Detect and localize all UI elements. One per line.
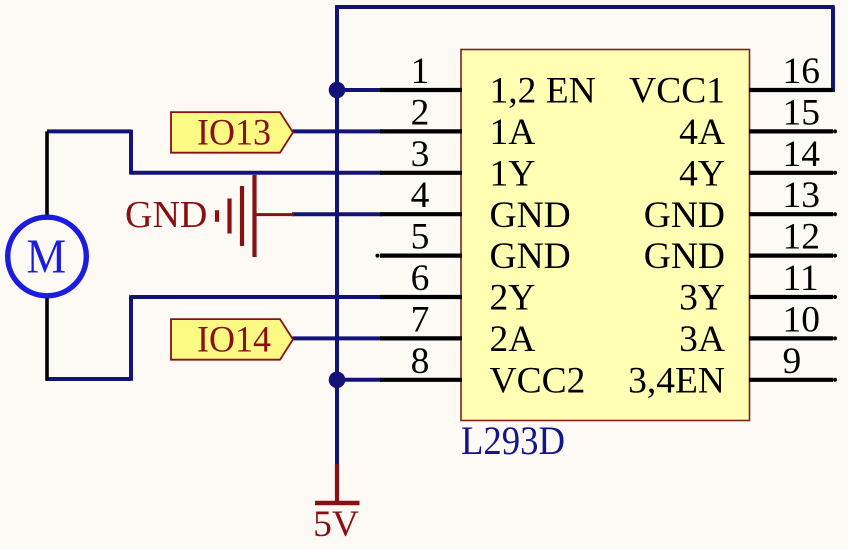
svg-text:3: 3 <box>411 134 430 175</box>
pin 7 line <box>380 336 462 340</box>
svg-text:4Y: 4Y <box>679 153 725 194</box>
pin 16 line <box>749 88 833 92</box>
svg-text:GND: GND <box>644 236 725 277</box>
pin 6 line <box>380 295 462 299</box>
wire IO13 to pin 2 (1A) <box>293 129 383 133</box>
svg-text:13: 13 <box>783 175 821 216</box>
wire IO14 to pin 7 (2A) <box>293 336 383 340</box>
pin 11 line <box>749 295 833 299</box>
motor lead bottom (black) <box>45 298 49 381</box>
svg-text:M: M <box>27 229 67 284</box>
pin 14 line <box>749 171 833 175</box>
svg-text:1A: 1A <box>490 112 536 153</box>
svg-text:10: 10 <box>783 299 821 340</box>
junction dot at pin 8 / 5V net <box>329 372 346 389</box>
pin 2 line <box>380 129 462 133</box>
ground symbol bar at x=229.5 <box>227 199 231 234</box>
wire 5V net: right vertical to pin 16 <box>831 7 835 92</box>
pin 13 end dot <box>833 212 837 216</box>
pin 14 end dot <box>833 171 837 175</box>
wire GND symbol to pin 4 <box>292 212 382 216</box>
pin 8 line <box>380 378 462 382</box>
svg-text:4: 4 <box>411 175 430 216</box>
net label flag IO13 <box>171 112 293 153</box>
pin 11 end dot <box>833 295 837 299</box>
op-amp U1 L293D body <box>461 50 750 421</box>
wire motor bottom vertical jog <box>129 295 133 381</box>
svg-text:9: 9 <box>783 341 802 382</box>
pin 12 end dot <box>833 254 837 258</box>
wire junction to pin 8 (VCC2) <box>337 378 382 382</box>
wire 5V net: top horizontal <box>335 5 835 9</box>
ground symbol bar at x=242 <box>240 186 244 246</box>
svg-text:2A: 2A <box>490 319 536 360</box>
svg-text:L293D: L293D <box>461 418 565 463</box>
svg-text:15: 15 <box>783 92 821 133</box>
power symbol 5V: vertical stub <box>335 464 339 503</box>
power symbol 5V: bar <box>315 501 360 506</box>
pin 3 line <box>380 171 462 175</box>
svg-text:1: 1 <box>411 51 430 92</box>
wire motor top horizontal <box>47 129 131 133</box>
svg-text:3A: 3A <box>679 319 725 360</box>
svg-text:4A: 4A <box>679 112 725 153</box>
pin 5 line <box>380 254 462 258</box>
svg-text:VCC1: VCC1 <box>629 71 725 112</box>
svg-text:VCC2: VCC2 <box>490 360 586 401</box>
pin 15 end dot <box>833 129 837 133</box>
motor M1 circle <box>8 217 87 296</box>
pin 10 end dot <box>833 336 837 340</box>
wire junction to pin 1 <box>337 88 382 92</box>
svg-text:5V: 5V <box>313 504 359 545</box>
wire 5V net: left vertical <box>335 5 339 465</box>
wire motor top vertical jog <box>129 130 133 175</box>
pin 5 end dot <box>376 254 380 258</box>
svg-text:1Y: 1Y <box>490 153 536 194</box>
svg-text:8: 8 <box>411 341 430 382</box>
pin 10 line <box>749 336 833 340</box>
pin 15 line <box>749 129 833 133</box>
svg-text:5: 5 <box>411 217 430 258</box>
ground symbol bar at x=254.5 <box>252 175 256 257</box>
wire motor to pin 3 (1Y) <box>131 171 382 175</box>
ground symbol bar at x=217 <box>215 210 219 222</box>
pin 12 line <box>749 254 833 258</box>
svg-text:16: 16 <box>783 51 821 92</box>
net label flag IO14 <box>171 319 293 360</box>
svg-text:1,2 EN: 1,2 EN <box>490 71 596 112</box>
pin 13 line <box>749 212 833 216</box>
junction dot at pin 1 / 5V net <box>329 82 346 99</box>
svg-text:GND: GND <box>644 195 725 236</box>
svg-text:6: 6 <box>411 258 430 299</box>
ground symbol pin stub <box>255 213 295 216</box>
motor lead top (black) <box>45 131 49 216</box>
svg-text:7: 7 <box>411 299 430 340</box>
pin 1 line <box>380 88 462 92</box>
svg-text:11: 11 <box>783 258 819 299</box>
svg-text:GND: GND <box>490 195 571 236</box>
svg-text:2Y: 2Y <box>490 278 536 319</box>
svg-text:14: 14 <box>783 134 821 175</box>
svg-text:GND: GND <box>125 194 207 236</box>
pin 4 line <box>380 212 462 216</box>
pin 9 line <box>749 378 833 382</box>
svg-text:GND: GND <box>490 236 571 277</box>
svg-text:12: 12 <box>783 217 821 258</box>
wire motor bottom horizontal <box>46 377 132 381</box>
svg-text:IO14: IO14 <box>197 320 271 361</box>
svg-text:2: 2 <box>411 92 430 133</box>
svg-text:3,4EN: 3,4EN <box>628 360 725 401</box>
svg-text:IO13: IO13 <box>197 113 271 154</box>
wire motor to pin 6 (2Y) <box>131 295 382 299</box>
pin 9 end dot <box>833 378 837 382</box>
svg-text:3Y: 3Y <box>679 278 725 319</box>
